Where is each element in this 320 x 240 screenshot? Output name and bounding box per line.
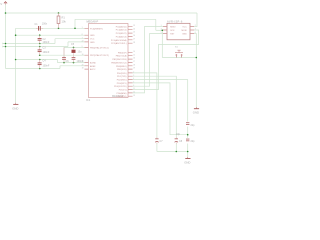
svg-text:5: 5 — [161, 32, 162, 34]
wire right column to rail — [187, 144, 189, 152]
wire cap B to rail — [175, 143, 177, 151]
svg-text:MISO: MISO — [170, 27, 176, 29]
svg-text:PC3(ADC3): PC3(ADC3) — [116, 35, 127, 38]
wire VCC vertical left — [5, 5, 7, 69]
svg-text:PD2(INT0): PD2(INT0) — [117, 80, 127, 82]
node VCC/left — [5, 12, 7, 14]
svg-text:MOSI: MOSI — [181, 30, 187, 32]
svg-text:AGND: AGND — [90, 62, 96, 65]
svg-text:100nF: 100nF — [43, 51, 50, 54]
wire PD2 to right column — [133, 80, 188, 122]
wire AVCC pin row y=41.9 — [68, 42, 85, 47]
svg-text:PB2(SS/OC1B): PB2(SS/OC1B) — [112, 59, 126, 61]
connector SV1 AVR-ISP-6 box — [167, 23, 190, 40]
wire button row — [162, 57, 196, 59]
ground symbol GND right middle — [193, 107, 199, 115]
svg-text:3: 3 — [133, 75, 134, 77]
wire RST row y=19.3 — [75, 18, 156, 20]
svg-text:PB3(MOSI/OC2): PB3(MOSI/OC2) — [111, 62, 127, 64]
wire SCK route — [133, 34, 164, 87]
wire PD0 to cap A column — [133, 73, 157, 138]
svg-text:6: 6 — [133, 85, 134, 87]
svg-text:GND: GND — [90, 35, 95, 37]
wire XTAL1 pin row y=47.4 — [64, 47, 85, 57]
svg-text:18: 18 — [82, 68, 84, 70]
node avcc cap bottom — [73, 62, 75, 64]
capacitor C8 right column upper — [176, 122, 195, 135]
svg-text:PB5(SCK): PB5(SCK) — [117, 69, 127, 71]
svg-text:22p: 22p — [176, 133, 181, 136]
svg-text:6: 6 — [195, 32, 196, 34]
wire button column — [161, 30, 163, 57]
svg-text:PC0(ADC0): PC0(ADC0) — [116, 25, 127, 28]
svg-text:MEGA8-P: MEGA8-P — [87, 19, 99, 23]
node RST drop — [74, 28, 76, 30]
svg-text:PC4(ADC4/SDA): PC4(ADC4/SDA) — [111, 39, 127, 42]
wire GND vertical x=15.6 — [15, 28, 17, 103]
wire GND from ISP right — [194, 34, 196, 108]
wire PD3 to mid join — [133, 83, 188, 135]
svg-text:PD4(XCK/T0): PD4(XCK/T0) — [114, 86, 127, 88]
wire AREF row y=65.8 — [60, 66, 85, 69]
svg-text:GND: GND — [193, 111, 199, 115]
svg-text:AVCC: AVCC — [90, 68, 96, 71]
svg-text:28: 28 — [133, 42, 135, 44]
svg-text:20: 20 — [82, 64, 84, 66]
node right column rail — [187, 151, 189, 153]
svg-text:5: 5 — [133, 82, 134, 84]
svg-text:PC1(ADC1): PC1(ADC1) — [116, 29, 127, 32]
wire bottom rail — [157, 151, 188, 153]
svg-text:PB7(XTAL2/TOSC2): PB7(XTAL2/TOSC2) — [90, 54, 109, 57]
svg-text:PB6(XTAL1/TOSC1): PB6(XTAL1/TOSC1) — [90, 46, 109, 49]
wire row y=55.2 — [40, 54, 85, 56]
svg-text:11: 11 — [133, 88, 135, 90]
svg-text:GND: GND — [90, 42, 95, 44]
wire row y=62.6 — [58, 62, 85, 64]
svg-text:2: 2 — [195, 25, 196, 27]
svg-text:3: 3 — [161, 29, 162, 31]
svg-text:1: 1 — [161, 25, 162, 27]
svg-text:2: 2 — [133, 72, 134, 74]
svg-text:16: 16 — [133, 58, 135, 60]
wire PD1 to cap B column — [133, 76, 177, 137]
node aref cap bottom — [63, 62, 65, 64]
node right column mid — [187, 134, 189, 136]
node cap B rail — [176, 151, 178, 153]
node cap3 top — [39, 46, 41, 48]
svg-text:GND: GND — [182, 34, 187, 36]
node cap2 top — [39, 34, 41, 36]
wire VCC pin row y=38.7 — [55, 39, 85, 44]
svg-text:PC6(/RESET): PC6(/RESET) — [90, 28, 103, 30]
wire VCC top rail y=13 — [6, 12, 198, 14]
svg-text:27: 27 — [133, 38, 135, 40]
svg-text:21: 21 — [82, 61, 84, 63]
svg-text:7: 7 — [82, 37, 83, 39]
wire RST vertical x=75 — [74, 19, 76, 28]
wire row y=68.5 — [6, 68, 61, 70]
wire RST row to drop — [155, 19, 157, 30]
svg-text:VCC: VCC — [182, 27, 187, 29]
svg-text:100n: 100n — [42, 23, 48, 26]
wire MISO route — [133, 27, 164, 93]
svg-text:PD3(INT1): PD3(INT1) — [117, 83, 127, 85]
svg-text:19: 19 — [133, 68, 135, 70]
ground symbol GND left — [12, 103, 18, 111]
svg-text:PC5(ADC5/SCL): PC5(ADC5/SCL) — [111, 42, 127, 45]
wire GND row y=35.2 — [16, 34, 85, 36]
node button right — [196, 57, 198, 59]
pins IC1 stubs — [85, 26, 133, 96]
node cap2 bottom — [39, 43, 41, 45]
svg-text:PD7(AIN1): PD7(AIN1) — [117, 95, 127, 98]
svg-text:PC2(ADC2): PC2(ADC2) — [116, 32, 127, 35]
svg-text:22p: 22p — [191, 124, 196, 127]
node R1 top — [58, 12, 60, 14]
svg-text:10: 10 — [82, 54, 84, 56]
svg-text:26: 26 — [133, 35, 135, 37]
capacitor C1 (series on reset row) — [35, 23, 48, 31]
wire row y=46.5 — [3, 46, 69, 48]
svg-text:8: 8 — [82, 34, 83, 36]
svg-text:PD6(AIN0): PD6(AIN0) — [117, 92, 127, 95]
capacitor C10 column A bottom — [155, 137, 163, 143]
svg-text:4: 4 — [195, 29, 196, 31]
capacitor C3 (vertical 46.5-55.2) — [38, 47, 50, 56]
svg-text:R1: R1 — [62, 16, 66, 20]
svg-text:100nF: 100nF — [43, 65, 50, 68]
svg-text:GND: GND — [184, 160, 190, 164]
wire VCC row y=43.5 — [3, 43, 56, 45]
node R1 bottom — [58, 28, 60, 30]
node gnd row — [15, 59, 17, 61]
svg-text:12: 12 — [133, 92, 135, 94]
node row 46.5 left — [5, 46, 7, 48]
tick left end row 43.5 — [3, 43, 5, 45]
svg-text:PB1(OC1A): PB1(OC1A) — [116, 55, 127, 58]
capacitor C7 (x=73.5 between 55.2 and 62.6) — [72, 55, 84, 63]
svg-text:14: 14 — [133, 51, 135, 53]
node aref cap top — [73, 47, 75, 49]
switch S1 reset button — [175, 46, 183, 57]
wire reset row y=28.3 — [16, 27, 85, 29]
node button top — [162, 30, 164, 32]
svg-text:10k: 10k — [62, 20, 67, 24]
svg-text:22: 22 — [82, 41, 84, 43]
svg-text:PD0(RXD): PD0(RXD) — [117, 73, 127, 75]
svg-text:PB4(MISO): PB4(MISO) — [116, 66, 127, 68]
capacitor C6 (x=64 between 47.4 and 62.6) — [62, 47, 69, 63]
svg-text:22p: 22p — [191, 140, 196, 143]
wire VCC drop to ISP right pin — [194, 13, 197, 27]
svg-text:24: 24 — [133, 28, 135, 30]
capacitor C9 right column lower — [186, 139, 195, 144]
svg-text:23: 23 — [133, 25, 135, 27]
svg-text:AREF: AREF — [90, 65, 96, 68]
capacitor C5 (polarized, x=73.5 between 47.4 and 55.2) — [71, 43, 82, 55]
node cap3 bottom — [39, 54, 41, 56]
resistor R1 — [57, 13, 66, 28]
wire MOSI route — [133, 30, 199, 90]
node GND row — [15, 34, 17, 36]
node cap4 top — [39, 59, 41, 61]
svg-text:1: 1 — [82, 27, 83, 29]
wire RST into ISP — [156, 29, 163, 31]
capacitor C2 (vertical 35.2-43.5) — [38, 35, 50, 44]
wire rail to GND — [187, 152, 189, 158]
svg-text:4: 4 — [133, 78, 134, 80]
svg-text:PD1(TXD): PD1(TXD) — [117, 76, 127, 78]
node cap4 bottom — [39, 68, 41, 70]
node vcc row left — [5, 43, 7, 45]
wire right column mid — [187, 127, 189, 138]
wire GND row y=59.5 — [16, 60, 58, 63]
svg-text:GND: GND — [12, 106, 18, 110]
svg-text:PD5(T1): PD5(T1) — [119, 90, 127, 92]
supply VCC symbol top left — [0, 2, 7, 6]
svg-text:IC1: IC1 — [86, 98, 91, 102]
svg-text:AVR-ISP-6: AVR-ISP-6 — [167, 19, 183, 23]
svg-text:17: 17 — [133, 61, 135, 63]
svg-text:13: 13 — [133, 95, 135, 97]
svg-text:15: 15 — [133, 54, 135, 56]
svg-text:SCK: SCK — [170, 30, 175, 32]
svg-text:25: 25 — [133, 32, 135, 34]
capacitor C11 column B bottom — [175, 137, 183, 143]
pins SV1 stubs — [163, 27, 194, 34]
capacitor C4 (vertical 59.5-68.5) — [38, 60, 50, 69]
svg-text:RST: RST — [170, 34, 175, 36]
wire cap A to rail — [156, 143, 158, 151]
svg-text:18: 18 — [133, 64, 135, 66]
ground symbol GND bottom right — [184, 157, 190, 164]
op-amp IC1 box — [89, 24, 129, 98]
svg-text:PB0(ICP): PB0(ICP) — [118, 52, 127, 54]
svg-text:100nF: 100nF — [43, 41, 50, 44]
svg-text:VCC: VCC — [90, 39, 95, 41]
svg-text:V: V — [0, 2, 2, 6]
svg-text:9: 9 — [82, 46, 83, 48]
